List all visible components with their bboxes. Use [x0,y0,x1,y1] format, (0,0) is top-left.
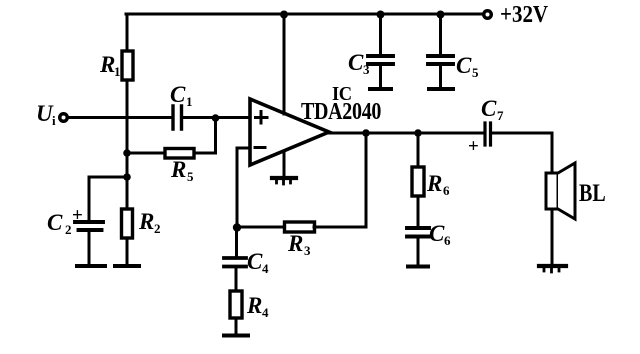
wire feedback vertical [314,133,366,227]
svg-text:7: 7 [497,108,504,123]
op-amp plus sign [256,112,268,124]
svg-text:6: 6 [444,233,451,248]
svg-text:C: C [429,221,445,246]
wire R6 lead [417,133,420,167]
svg-text:1: 1 [114,64,121,79]
ground C3 [370,87,391,91]
svg-text:C: C [170,82,186,107]
wire op-amp ground lead [283,152,286,176]
wire op-amp minus input bend [237,148,250,227]
wire C5 to ground [439,66,442,87]
wire C2 to ground [88,232,91,265]
svg-text:C: C [348,50,364,75]
svg-text:2: 2 [154,221,161,236]
node dot output R6 [414,129,422,137]
svg-text:2: 2 [65,222,72,237]
svg-text:C: C [247,249,263,274]
wire input from terminal to C1 [69,116,171,119]
wire top supply rail [126,13,481,16]
svg-text:+32V: +32V [500,1,549,28]
wire R3 to node [240,226,285,229]
wire R6 to C6 [417,196,420,226]
svg-text:R: R [246,293,262,318]
wire C1 to op-amp + input [183,116,249,119]
ground R2 [115,264,139,268]
resistor R3 [285,222,315,232]
node dot top rail C5 [437,11,445,19]
ground C2 [77,264,105,268]
resistor R1 [122,51,133,80]
capacitor C6 [407,228,429,237]
node dot C2 branch [123,173,131,181]
wire C3 to ground [379,66,382,87]
ground C6 [408,265,428,269]
svg-text:1: 1 [186,94,193,109]
svg-text:3: 3 [304,243,311,258]
wire node to C4 [235,229,238,256]
svg-text:R: R [170,157,186,182]
svg-text:R: R [138,209,154,234]
capacitor C3 [368,56,393,64]
capacitor C3 lead [379,14,382,54]
svg-text:4: 4 [262,261,269,276]
terminal Ui [58,112,69,123]
node dot top rail C3 [377,11,385,19]
node dot feedback [233,223,241,231]
ground op-amp [272,176,296,180]
svg-text:4: 4 [262,305,269,320]
svg-text:C: C [481,96,497,121]
speaker BL body [546,173,558,209]
svg-text:5: 5 [187,169,194,184]
svg-text:5: 5 [472,65,479,80]
ground R4 [224,334,248,338]
capacitor C5 [428,56,453,64]
svg-text:C: C [456,53,472,78]
node dot output R3 [362,129,370,137]
wire C4 to R4 [235,269,238,292]
capacitor C5 lead [439,14,442,54]
svg-text:+: + [468,136,479,157]
wire R5 left to node [127,152,165,155]
resistor R2 [122,209,133,238]
wire R1 column down to R2 [126,80,129,209]
op-amp minus sign [255,146,265,149]
ground C5 [429,87,453,91]
wire R4 to ground [235,318,238,333]
capacitor C4 [224,258,246,267]
wire speaker to ground [551,209,554,264]
svg-text:i: i [52,113,56,128]
node dot R5 left [123,149,131,157]
svg-text:TDA2040: TDA2040 [301,97,381,124]
capacitor C1 [173,106,182,129]
wire node to C2 [89,177,127,220]
svg-text:BL: BL [579,178,606,207]
resistor R6 [412,167,424,196]
node dot top rail op-amp power [280,11,288,19]
capacitor C2 [75,222,103,230]
wire R1 column top [126,14,129,51]
resistor R4 [230,291,242,318]
op-amp U1 triangle [250,99,329,165]
svg-text:3: 3 [363,62,370,77]
wire op-amp output [329,132,483,135]
wire op-amp power lead [283,14,286,114]
wire C7 to speaker [492,133,552,173]
svg-text:6: 6 [443,183,450,198]
speaker BL horn [558,163,575,219]
terminal +32V [482,9,493,20]
wire R2 to ground [126,238,129,263]
svg-text:R: R [99,52,115,77]
node dot after C1 [212,114,220,122]
svg-text:C: C [47,210,63,235]
svg-text:R: R [287,231,303,256]
wire C6 to ground [417,238,420,264]
svg-text:+: + [72,205,83,226]
resistor R5 [165,149,194,159]
svg-text:R: R [426,171,442,196]
wire junction down to R5 [194,118,216,153]
capacitor C7 [485,123,491,145]
ground speaker [539,264,566,268]
